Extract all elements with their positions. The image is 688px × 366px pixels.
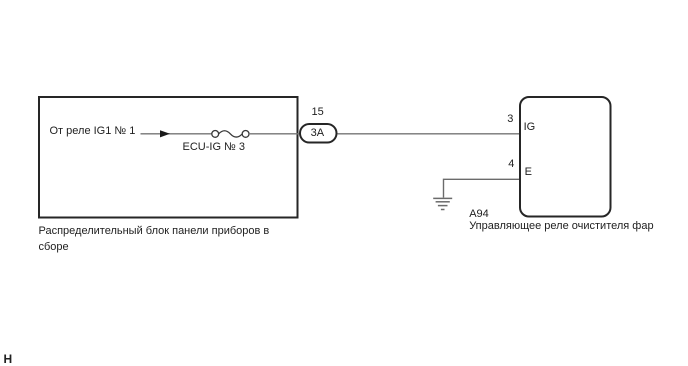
arrow (current direction) <box>160 130 170 137</box>
fuse rating 3A <box>311 128 324 139</box>
ground symbol <box>433 198 452 209</box>
component name: headlamp cleaner control relay <box>469 221 653 232</box>
headlamp cleaner control relay body A94 <box>520 97 611 217</box>
net label: from relay IG1 No1 <box>50 126 136 137</box>
connector pin number 15 <box>312 107 324 118</box>
fuse ECU-IG No3 wavy element <box>219 131 243 137</box>
relay pin number 4 <box>508 159 514 170</box>
wire from relay pin 4 (E) to ground <box>444 179 520 197</box>
connector oval 3A (pin 15) <box>300 124 337 143</box>
wire from source label to fuse <box>141 133 213 135</box>
relay pin name IG <box>524 122 536 133</box>
relay pin number 3 <box>507 114 513 125</box>
fuse value label ECU-IG No3 <box>183 142 246 153</box>
fuse ECU-IG No3 right terminal circle <box>242 131 249 138</box>
wire from fuse to connector 3A <box>249 133 300 135</box>
component name: instrument panel junction block <box>39 224 270 254</box>
junction block box <box>39 97 298 218</box>
page index H <box>4 354 13 365</box>
relay pin name E <box>525 167 532 178</box>
fuse ECU-IG No3 left terminal circle <box>212 131 219 138</box>
wire from connector 3A to relay pin 3 <box>338 133 520 135</box>
component designator A94 <box>469 209 489 220</box>
